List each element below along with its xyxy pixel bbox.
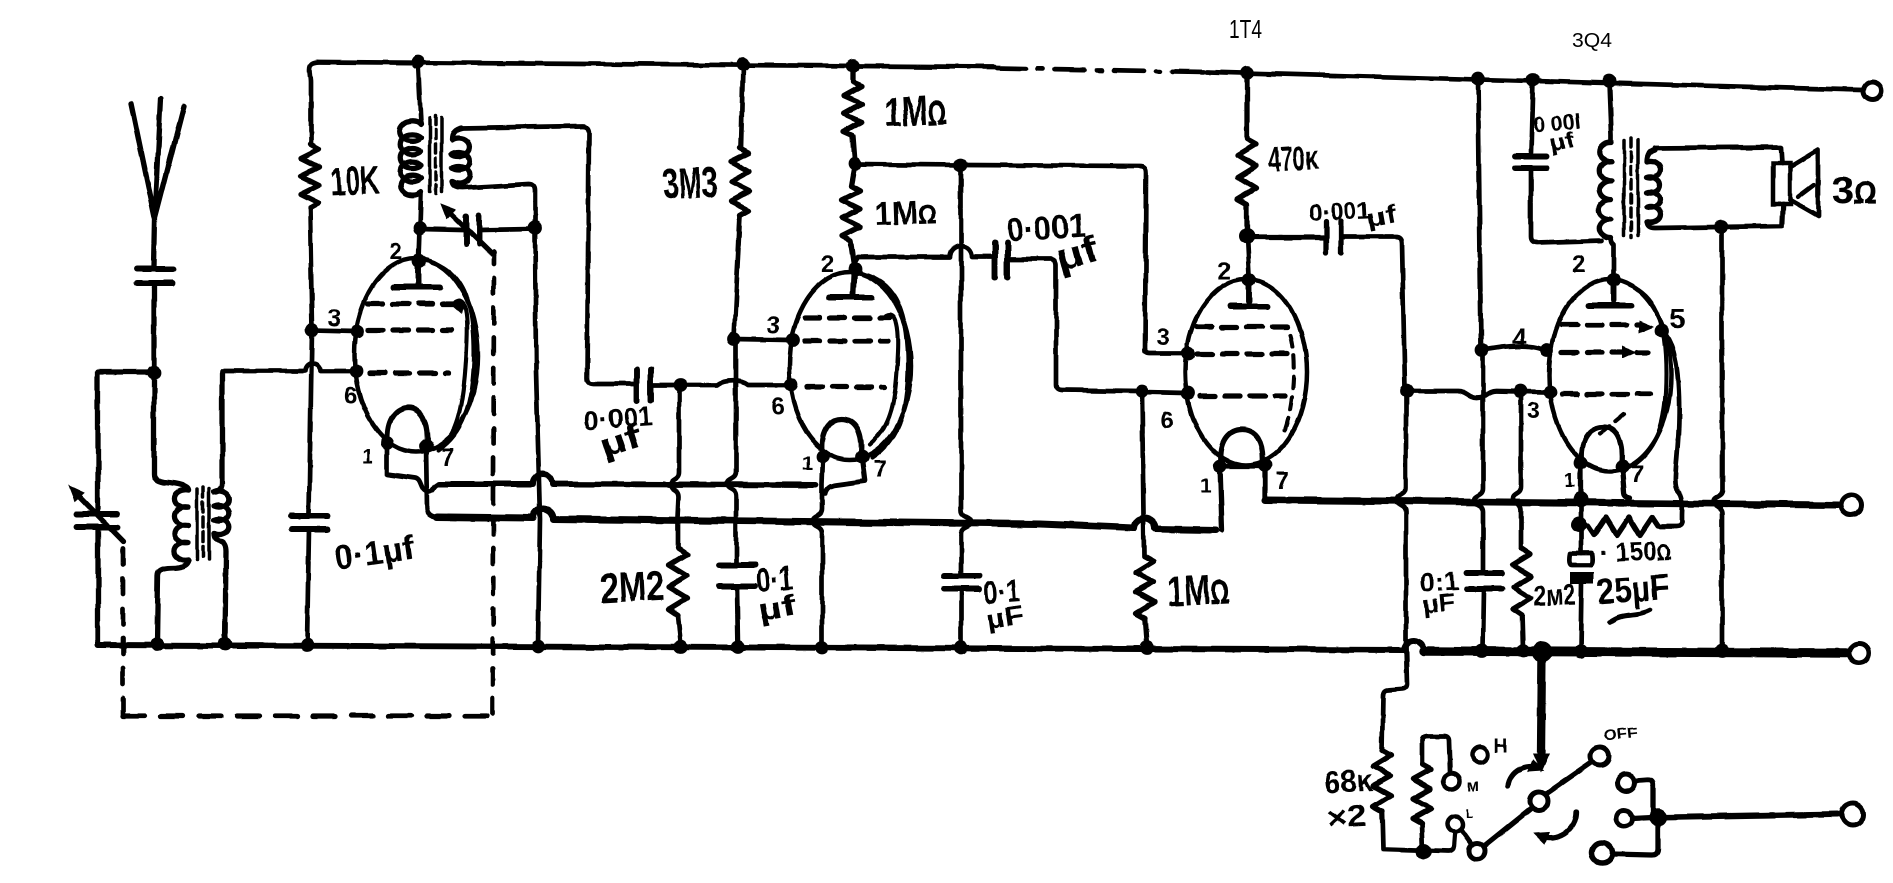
tube V3 grid hook xyxy=(1285,335,1294,430)
svg-text:µF: µF xyxy=(1421,589,1457,619)
svg-text:µf: µf xyxy=(755,589,800,628)
svg-text:3: 3 xyxy=(767,312,780,339)
pin V2-6 xyxy=(784,378,798,392)
wire V3 pin1 to bus xyxy=(1220,466,1222,530)
core T3 xyxy=(1624,138,1638,238)
wire V3 pins base xyxy=(1220,463,1265,468)
wire L contact link xyxy=(1461,829,1471,843)
wire V4 pin7 to bus xyxy=(1622,466,1630,498)
label V4 pin1 xyxy=(1564,470,1575,492)
terminal battery bottom right xyxy=(1842,803,1864,825)
wire bus to bias node xyxy=(1579,500,1584,522)
node gnd g xyxy=(815,641,829,655)
svg-text:7: 7 xyxy=(441,444,454,471)
wire V4 pin4 link xyxy=(1482,346,1544,350)
node gnd f xyxy=(731,640,745,654)
svg-text:3: 3 xyxy=(1156,324,1169,351)
label V4 pin2 xyxy=(1572,251,1585,278)
inductor T3 primary xyxy=(1599,142,1611,238)
label C8 0.1uF xyxy=(1420,566,1460,619)
label V3 type 1T4 xyxy=(1229,14,1262,44)
svg-text:1: 1 xyxy=(1200,475,1211,497)
resistor R10 68K xyxy=(1373,750,1391,812)
tube V4 plate xyxy=(1589,282,1631,306)
node V4 pin4 junction xyxy=(1475,343,1489,357)
wire to trimmer cap xyxy=(98,372,154,512)
node taps bottom junction xyxy=(1416,843,1432,859)
node gnd e xyxy=(674,640,688,654)
capacitor antenna series xyxy=(137,269,173,283)
wire dashed gang link bottom xyxy=(123,713,492,718)
label V4 type 3Q4 xyxy=(1572,30,1612,52)
label R7 470K xyxy=(1267,138,1320,180)
wire grid node to pin6 xyxy=(682,381,790,385)
wire V4 pin1 to bus xyxy=(1578,463,1583,499)
tube V1 grid row1 xyxy=(368,301,460,306)
svg-text:1Mꭥ: 1Mꭥ xyxy=(874,193,937,232)
wire R8 to ground xyxy=(1522,615,1523,649)
node top bus junction F xyxy=(1526,73,1540,87)
label tap L xyxy=(1466,805,1473,825)
tube V1 grid row3 xyxy=(370,370,448,375)
wire T2 primary to varcap node xyxy=(420,192,421,228)
tube V4 envelope inner right xyxy=(1630,285,1666,466)
wire top supply bus xyxy=(318,62,994,67)
wire V2 pin1 to ground xyxy=(813,456,823,647)
label tap M xyxy=(1467,776,1480,795)
pin V1-1 xyxy=(380,436,394,450)
inductor T1 secondary xyxy=(214,491,229,535)
capacitor C2 0.1uF xyxy=(291,516,327,529)
switch tap L contact xyxy=(1447,816,1463,832)
wire V1 pin7 to bus B xyxy=(426,446,437,517)
tube V4 grid row2 arrow xyxy=(1623,347,1634,357)
svg-text:ᴸ: ᴸ xyxy=(1466,805,1473,825)
label V1 pin6 xyxy=(344,383,357,410)
wire B+ line to cap xyxy=(1474,350,1483,570)
wire C2 to ground xyxy=(307,529,309,644)
label V3 pin3 xyxy=(1156,324,1169,351)
svg-text:25µF: 25µF xyxy=(1596,566,1671,612)
svg-text:4: 4 xyxy=(1512,323,1527,353)
wire V4 pin5 down xyxy=(1660,331,1682,527)
switch SW1 lever to OFF xyxy=(1546,762,1592,794)
pin V2-7 xyxy=(855,450,869,464)
svg-text:0·001: 0·001 xyxy=(1308,197,1371,227)
capacitor variable oscillator C3 xyxy=(466,216,479,244)
wire pin6 drop to T1 secondary xyxy=(216,373,222,492)
pin V4-5 xyxy=(1655,324,1669,338)
wire V3 pin6 link xyxy=(1142,392,1186,393)
tube V1 grid hook xyxy=(447,301,467,441)
node gnd a xyxy=(150,637,164,651)
label R6 1M xyxy=(1166,565,1230,615)
wire trimmer to ground xyxy=(95,527,100,645)
label V4 pin4 xyxy=(1512,323,1527,353)
wire SW2 C link xyxy=(1612,824,1658,855)
node gnd m xyxy=(1715,644,1729,658)
wire C5 to grid node xyxy=(651,383,678,388)
switch SW2 contact C xyxy=(1592,843,1612,863)
wire 2M2 to ground xyxy=(678,615,681,647)
tube V4 grid row1 xyxy=(1562,322,1642,327)
svg-text:1Mꭥ: 1Mꭥ xyxy=(1166,565,1230,615)
tube V4 grid row3 xyxy=(1562,391,1650,396)
svg-text:3M3: 3M3 xyxy=(662,158,719,209)
node top bus junction B xyxy=(736,57,750,71)
node gnd h xyxy=(954,641,968,655)
terminal ground right xyxy=(1849,643,1869,663)
node top bus junction G xyxy=(1602,74,1616,88)
tube V1 envelope inner right xyxy=(432,262,474,450)
pin V3-1 xyxy=(1213,459,1227,473)
resistor R3 2M2 xyxy=(669,548,687,615)
wire T3 secondary bottom xyxy=(1647,204,1783,228)
svg-text:3Q4: 3Q4 xyxy=(1572,30,1612,52)
node osc varcap right xyxy=(528,221,542,235)
wire V1 pin1 to bus A xyxy=(387,443,439,492)
wire bias node to cap xyxy=(1579,525,1584,553)
resistor R2 3M3 xyxy=(731,148,749,215)
wire top bus right section xyxy=(1206,72,1862,90)
label C4 0.1uF xyxy=(754,559,800,628)
svg-text:µf: µf xyxy=(1548,127,1578,156)
wire bus to 3M3 xyxy=(741,64,743,148)
wire ground bus left xyxy=(98,645,1404,650)
switch SW2 contact A xyxy=(1617,774,1635,792)
tube V1 cathode xyxy=(387,408,427,446)
label V1 pin2 xyxy=(389,238,402,265)
terminal filament mid right xyxy=(1841,495,1861,515)
speaker LS1 xyxy=(1773,150,1818,216)
tube V2 grid hook xyxy=(870,315,898,445)
pin V1-7 xyxy=(419,439,433,453)
node gnd l xyxy=(1574,644,1588,658)
capacitor C8 0.1uF xyxy=(1466,573,1502,589)
wire mast to coil xyxy=(154,372,188,490)
node trimmer arrowhead xyxy=(70,487,83,500)
tube V2 plate xyxy=(829,272,872,297)
svg-text:2M2: 2M2 xyxy=(599,562,665,612)
label C11 0.1uF xyxy=(983,572,1026,635)
wire dashed gang link right xyxy=(493,252,494,714)
wire SW2 B link xyxy=(1632,817,1652,818)
label V3 pin2 xyxy=(1218,258,1231,285)
label R1 10K xyxy=(329,158,380,205)
tube V4 envelope xyxy=(1549,279,1671,471)
svg-text:1: 1 xyxy=(1564,470,1575,492)
wire R10 bottom xyxy=(1382,812,1455,851)
svg-text:6: 6 xyxy=(1160,407,1173,434)
wire battery tap down xyxy=(1397,391,1406,646)
resistor R7 470K xyxy=(1238,73,1256,232)
wire bus to T2 xyxy=(418,62,421,124)
wire R11 top to M xyxy=(1422,736,1450,771)
svg-text:2: 2 xyxy=(1218,258,1231,285)
switch SW1 arrow upper xyxy=(1508,761,1542,786)
label V3 pin1 xyxy=(1200,475,1211,497)
node decoupling tap xyxy=(954,158,968,172)
node switch feed arrowhead xyxy=(1534,754,1548,770)
pin V2-2 xyxy=(848,262,862,276)
switch SW1 arrow lower xyxy=(1535,812,1576,843)
node osc varcap arrowhead xyxy=(442,205,455,218)
svg-text:1: 1 xyxy=(802,453,813,475)
wire varcap right link xyxy=(479,229,535,230)
wire C10 to plate node xyxy=(1531,168,1602,243)
capacitor C10 0.001uF xyxy=(1515,156,1547,168)
label R5 1M xyxy=(874,193,937,232)
label V2 pin3 xyxy=(767,312,780,339)
wire antenna mast lower xyxy=(151,283,156,372)
node gnd i xyxy=(1140,641,1154,655)
node V4 pin1 bus junction xyxy=(1573,492,1589,508)
pin V1-2 xyxy=(412,254,426,268)
label V4 pin5 xyxy=(1670,303,1686,334)
wire R6 to ground xyxy=(1145,618,1147,647)
label C6 0.001uF xyxy=(1005,206,1103,279)
resistor R4 1M xyxy=(844,66,862,162)
wire C11 to ground xyxy=(959,589,964,647)
pin V2-3 xyxy=(786,333,800,347)
label V4 pin7 xyxy=(1630,461,1643,488)
pin V4-4 xyxy=(1540,343,1554,357)
tube V3 grid row1 xyxy=(1197,324,1290,329)
wire switch feed xyxy=(1541,652,1542,752)
node SW2 junction xyxy=(1649,808,1667,826)
svg-text:7: 7 xyxy=(873,456,886,483)
tube V4 cathode xyxy=(1582,427,1623,463)
tube V3 plate xyxy=(1230,281,1267,306)
label R10 x2 xyxy=(1326,800,1368,835)
tube V4 inner dash xyxy=(1600,414,1624,434)
capacitor C6 0.001uF xyxy=(995,243,1007,277)
tube V2 cathode xyxy=(822,419,861,453)
wire trimmer arrow xyxy=(74,491,123,541)
label V1 pin3 xyxy=(328,305,341,332)
svg-text:OFF: OFF xyxy=(1603,724,1639,744)
wire 3M3 node down xyxy=(727,339,736,563)
capacitor C9 25uF electrolytic xyxy=(1569,553,1594,584)
tube V2 grid row2 xyxy=(805,338,888,343)
switch SW1 pivot xyxy=(1530,792,1548,810)
wire ground bus right xyxy=(1424,651,1846,653)
wire T3 primary bottom to pin2 xyxy=(1611,238,1614,278)
switch SW1 OFF contact xyxy=(1591,747,1609,765)
tube V1 plate xyxy=(394,264,440,287)
label V3 pin6 xyxy=(1160,407,1173,434)
svg-text:1T4: 1T4 xyxy=(1229,14,1262,44)
svg-text:2: 2 xyxy=(1572,251,1585,278)
wire V4 grid leak down xyxy=(1513,391,1521,548)
node pin3 junction xyxy=(305,323,319,337)
wire bus to C10 xyxy=(1531,80,1533,152)
tube V2 grid row3 xyxy=(807,384,885,389)
wire grid node down to 2M2 xyxy=(671,385,679,548)
pin V3-3 xyxy=(1181,347,1195,361)
node gnd j xyxy=(1475,644,1489,658)
switch SW1 lever low xyxy=(1486,808,1532,845)
svg-text:3ꭥ: 3ꭥ xyxy=(1832,170,1877,212)
svg-text:µF: µF xyxy=(985,600,1026,635)
tube V1 grid row2 xyxy=(368,327,452,332)
wire padder node to ground xyxy=(535,228,540,645)
wire battery minus out xyxy=(1661,814,1838,817)
terminal B+ top right xyxy=(1863,82,1881,100)
wire V2 pin7 jog xyxy=(825,457,865,494)
wire top bus dash-dot section xyxy=(996,68,1206,72)
label C2 0.1uF xyxy=(332,529,417,578)
wire decoupling line down xyxy=(961,165,971,574)
wire C4 to ground xyxy=(737,586,738,647)
svg-text:3: 3 xyxy=(328,305,341,332)
pin V3-2 xyxy=(1242,273,1256,287)
tube V4 grid row2 xyxy=(1562,349,1648,354)
label SW1 OFF xyxy=(1603,724,1639,744)
svg-text:470ĸ: 470ĸ xyxy=(1267,138,1320,180)
pin V1-6 xyxy=(349,364,363,378)
node divider junction xyxy=(848,157,862,171)
svg-text:2: 2 xyxy=(821,251,834,278)
wire V2 pin2 east xyxy=(855,246,992,262)
wire T1 primary to ground xyxy=(157,560,188,644)
pin V3-7 xyxy=(1258,459,1272,473)
wire varcap node to pin2 xyxy=(419,228,420,260)
wire T3 secondary top to speaker xyxy=(1655,147,1782,163)
node V3 plate junction xyxy=(1239,228,1255,244)
node V2 grid junction xyxy=(673,378,687,392)
label V4 pin3 xyxy=(1527,398,1540,425)
label V2 pin2 xyxy=(821,251,834,278)
resistor R11 68K xyxy=(1413,764,1431,824)
resistor R9 150R xyxy=(1588,517,1658,535)
svg-text:м: м xyxy=(1467,776,1480,795)
tube V3 envelope xyxy=(1185,279,1307,465)
node V4 grid leak tap xyxy=(1513,384,1527,398)
wire osc varcap arrow xyxy=(446,209,492,254)
node gnd switch feed xyxy=(1532,642,1553,663)
svg-text:6: 6 xyxy=(771,393,784,420)
label V2 pin1 xyxy=(802,453,813,475)
label R4 1M xyxy=(883,86,947,136)
wire pin3 link xyxy=(312,330,356,331)
pin V4-2 xyxy=(1607,273,1621,287)
resistor R6 1M xyxy=(1136,556,1154,618)
tube V1 grid hook arrowhead xyxy=(452,303,464,312)
svg-text:2м2: 2м2 xyxy=(1533,579,1576,613)
wire R11 bottom xyxy=(1422,824,1423,851)
wire 3M3 to pin3 node xyxy=(734,215,740,338)
tube V1 envelope xyxy=(354,258,478,452)
svg-text:68ĸ: 68ĸ xyxy=(1324,762,1374,800)
node top bus junction A xyxy=(411,55,425,69)
svg-text:5: 5 xyxy=(1670,303,1686,334)
pin V4-7 xyxy=(1615,459,1629,473)
label LS1 3 ohm xyxy=(1832,170,1877,212)
node osc varcap left xyxy=(413,221,427,235)
wire C9 to ground xyxy=(1581,584,1582,649)
wire SW2 A link xyxy=(1635,780,1653,813)
label C10 0.001uF xyxy=(1532,108,1582,156)
inductor T2 primary xyxy=(400,121,421,195)
svg-text:2: 2 xyxy=(389,238,402,265)
wire V3 grid leak down xyxy=(1142,391,1144,556)
label R2 3M3 xyxy=(662,158,719,209)
capacitor variable trimmer C1 xyxy=(76,514,117,527)
pin V4-3 xyxy=(1543,385,1557,399)
wire V3 pin7 to bus xyxy=(1262,466,1267,500)
node V4 grid junction xyxy=(1400,384,1414,398)
label V1 pin1 xyxy=(362,446,373,468)
pin V3-6 xyxy=(1181,386,1195,400)
wire V3 pin3 link xyxy=(1145,350,1186,354)
wire R1 to pin3 node xyxy=(310,208,312,330)
wire ground bus hop xyxy=(1404,640,1424,651)
wire bus A xyxy=(439,474,816,485)
switch SW1 low contact xyxy=(1469,843,1485,859)
wire T2 tickler bottom xyxy=(452,182,535,228)
inductor T2 tickler xyxy=(452,128,470,184)
wire B+ dropper down xyxy=(1478,79,1481,348)
wire pin6 link xyxy=(222,363,356,371)
tube V2 envelope xyxy=(789,272,911,460)
svg-text:1Mꭥ: 1Mꭥ xyxy=(883,86,947,136)
tube V3 grid row2 xyxy=(1197,351,1292,356)
switch SW2 contact B xyxy=(1616,810,1632,826)
capacitor C11 0.1uF xyxy=(944,576,980,589)
capacitor C5 0.001uF xyxy=(637,369,651,401)
wire C8 to ground xyxy=(1483,589,1484,649)
wire T2 tickler top right xyxy=(462,126,634,384)
resistor R8 2M2 xyxy=(1513,548,1531,615)
label C9 swoosh xyxy=(1610,610,1650,622)
wire varcap left link xyxy=(420,229,463,230)
core T1 xyxy=(197,487,209,562)
label C7 0.001uF xyxy=(1308,197,1399,233)
label V1 pin7 xyxy=(441,444,454,471)
pin V2-1 xyxy=(816,449,830,463)
node gnd c xyxy=(300,638,314,652)
label V2 pin7 xyxy=(873,456,886,483)
svg-text:H: H xyxy=(1494,736,1508,757)
wire V2 pin3 link xyxy=(734,339,790,340)
inductor T1 primary xyxy=(174,490,188,561)
resistor R1 10K xyxy=(301,144,319,208)
svg-text:3: 3 xyxy=(1527,398,1540,425)
label tap H xyxy=(1494,736,1508,757)
core T2 xyxy=(430,116,442,194)
node antenna junction xyxy=(147,365,161,379)
node gnd b xyxy=(218,637,232,651)
wire V4 grid row xyxy=(1407,391,1546,398)
node top bus junction E xyxy=(1471,72,1485,86)
svg-text:×2: ×2 xyxy=(1326,800,1368,835)
wire V3 plate link xyxy=(1247,236,1249,276)
tube V4 grid row1 arrow xyxy=(1640,322,1652,332)
wire speaker return down xyxy=(1713,228,1722,649)
wire bus B right xyxy=(1265,500,1838,505)
wire C6 to V3 grid xyxy=(1007,259,1140,391)
svg-text:7: 7 xyxy=(1276,468,1289,495)
capacitor C4 0.1uF xyxy=(719,565,755,586)
resistor R5 1M xyxy=(842,164,860,262)
node V3 grid junction xyxy=(1135,384,1149,398)
switch tap M contact xyxy=(1444,773,1460,789)
node V2 pin3 junction xyxy=(727,332,741,346)
label R8 2M2 xyxy=(1533,579,1576,613)
wire dashed gang link left xyxy=(121,548,126,714)
inductor T3 secondary xyxy=(1647,150,1660,223)
